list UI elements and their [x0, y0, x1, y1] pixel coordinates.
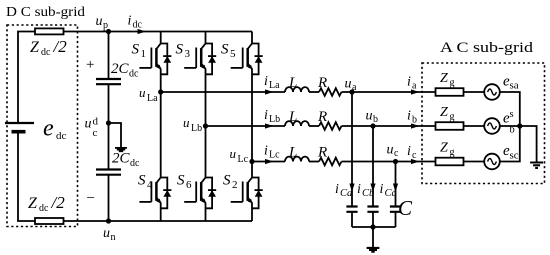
svg-text:4: 4 — [147, 179, 153, 191]
svg-text:Cb: Cb — [362, 188, 374, 199]
svg-text:R: R — [317, 109, 327, 125]
svg-text:Z: Z — [30, 39, 40, 56]
svg-text:dc: dc — [39, 203, 49, 214]
capacitor 2Cdc lower plates — [96, 170, 121, 175]
svg-text:L: L — [288, 145, 297, 161]
svg-text:g: g — [450, 147, 455, 158]
wire: capacitor bottom bus — [352, 226, 396, 228]
wire: resistor to AC box — [342, 161, 437, 163]
svg-text:c: c — [93, 127, 98, 139]
wire: battery top to rail — [18, 32, 35, 124]
wire: u_b down to capacitor Cb — [372, 126, 374, 207]
wire: capacitor Ca to bus — [351, 212, 353, 227]
transistor S4 (IGBT) — [139, 178, 161, 204]
svg-text:u: u — [96, 14, 103, 29]
svg-text:A C sub-grid: A C sub-grid — [440, 40, 534, 56]
wire: capacitor Cb to bus — [372, 212, 374, 227]
wire: u_p down to upper capacitor — [108, 32, 110, 80]
capacitor 2Cdc upper plates — [96, 79, 121, 84]
wire: S4 emitter to bottom rail — [160, 203, 162, 221]
transistor S3 (IGBT) — [184, 44, 206, 70]
svg-text:e: e — [43, 116, 54, 142]
svg-text:1: 1 — [141, 48, 147, 60]
svg-text:p: p — [103, 20, 108, 31]
current arrow i_Lb — [265, 123, 274, 128]
svg-text:i: i — [335, 182, 339, 197]
AC sub-grid dashed box — [422, 63, 545, 184]
node u_n — [106, 218, 111, 223]
svg-text:i: i — [264, 74, 268, 89]
node u_Lb — [203, 123, 208, 128]
wire: Zg to source (phase b) — [464, 125, 485, 127]
wire: resistor to AC box — [342, 125, 437, 127]
svg-text:u: u — [230, 146, 237, 161]
node u_b — [370, 123, 375, 128]
wire: u_La to inductor — [161, 91, 285, 93]
svg-text:La: La — [269, 80, 280, 91]
node u_Lc — [249, 159, 254, 164]
svg-text:b: b — [412, 115, 417, 126]
node u_La — [158, 89, 163, 94]
wire: leg B phase node down to S6 — [205, 126, 207, 178]
svg-text:dc: dc — [56, 130, 67, 142]
wire: leg A top stub — [160, 32, 162, 44]
svg-text:sc: sc — [510, 150, 519, 162]
current arrow i_Lc — [265, 159, 274, 164]
battery e_dc long plate — [5, 122, 34, 124]
svg-text:3: 3 — [185, 48, 191, 60]
svg-text:b: b — [373, 114, 378, 125]
svg-text:L: L — [288, 109, 297, 125]
inductor L (phase a) — [285, 87, 309, 92]
svg-text:Ca: Ca — [340, 188, 352, 199]
capacitor Cb plates — [367, 207, 378, 212]
AC source e_sa — [484, 84, 500, 100]
svg-text:Lc: Lc — [238, 154, 249, 165]
svg-text:dc: dc — [133, 20, 143, 31]
svg-text:i: i — [380, 182, 384, 197]
wire: S5 emitter to node u_Lc — [251, 69, 253, 162]
svg-text:u: u — [85, 117, 92, 132]
wire: S2 emitter to bottom rail — [251, 203, 253, 221]
transistor S2 (IGBT) — [231, 178, 253, 204]
svg-text:Z: Z — [440, 141, 448, 156]
svg-text:u: u — [387, 143, 394, 158]
svg-text:2C: 2C — [111, 61, 130, 77]
wire: leg B top stub — [205, 32, 207, 44]
svg-text:L: L — [288, 75, 297, 91]
wire: S1 emitter to node u_La — [160, 69, 162, 92]
resistor Zg (phase b) — [436, 122, 464, 130]
svg-text:i: i — [357, 182, 361, 197]
svg-text:S: S — [223, 173, 231, 189]
current arrow i_La — [265, 89, 274, 94]
capacitor Cc plates — [390, 207, 401, 212]
transistor S5 (IGBT) — [231, 44, 253, 70]
diode D4 (antiparallel) — [161, 178, 172, 209]
svg-text:u: u — [139, 85, 146, 100]
svg-text:5: 5 — [230, 48, 236, 60]
resistor Zdc/2 bottom box — [35, 218, 64, 224]
current arrow i_b — [411, 123, 420, 128]
svg-text:a: a — [412, 81, 417, 92]
node u_p — [106, 29, 111, 34]
svg-text:g: g — [450, 78, 455, 89]
resistor Zdc/2 top box — [35, 28, 64, 34]
svg-text:i: i — [128, 14, 132, 29]
svg-text:u: u — [345, 77, 352, 92]
svg-text:Z: Z — [440, 105, 448, 120]
svg-text:n: n — [111, 232, 116, 243]
diode D2 (antiparallel) — [252, 178, 263, 209]
diode D5 (antiparallel) — [252, 44, 263, 75]
wire: junction to AC ground — [520, 126, 537, 162]
diode D3 (antiparallel) — [206, 44, 217, 75]
wire: S6 emitter to bottom rail — [205, 203, 207, 221]
transistor S6 (IGBT) — [184, 178, 206, 204]
wire: battery bottom to bottom rail — [18, 132, 35, 221]
current arrow i_Cb — [370, 184, 375, 193]
wire: leg C top stub — [251, 32, 253, 44]
svg-text:i: i — [264, 108, 268, 123]
battery e_dc short plate — [12, 130, 26, 134]
ground (AC neutral) — [530, 163, 543, 169]
ground (capacitor bank) — [367, 248, 380, 252]
svg-text:S: S — [221, 42, 229, 58]
svg-text:R: R — [317, 145, 327, 161]
wire: u_c down to capacitor Cc — [395, 162, 397, 207]
svg-text:dc: dc — [130, 158, 140, 169]
wire: top rail — [64, 31, 253, 33]
wire — [309, 91, 319, 93]
svg-text:Lb: Lb — [191, 123, 202, 134]
wire: u_Lb to inductor — [206, 125, 286, 127]
current arrow i_Cc — [393, 184, 398, 193]
svg-text:−: − — [87, 191, 95, 207]
svg-text:La: La — [147, 93, 158, 104]
diode D6 (antiparallel) — [206, 178, 217, 209]
node u_dc midpoint — [106, 120, 111, 125]
svg-text:i: i — [407, 144, 411, 159]
wire: resistor to AC box — [342, 91, 437, 93]
wire: leg A phase node down to S4 — [160, 92, 162, 178]
svg-text:Lb: Lb — [269, 114, 280, 125]
node u_c — [393, 159, 398, 164]
node u_a — [349, 89, 354, 94]
svg-text:2C: 2C — [112, 151, 131, 167]
svg-text:D C sub-grid: D C sub-grid — [6, 5, 85, 20]
svg-text:/2: /2 — [51, 193, 66, 212]
resistor R (phase a) — [319, 88, 342, 96]
diode D1 (antiparallel) — [161, 44, 172, 75]
svg-text:dc: dc — [41, 47, 51, 58]
svg-text:c: c — [394, 148, 399, 159]
svg-text:6: 6 — [186, 179, 192, 191]
transistor S1 (IGBT) — [139, 44, 161, 70]
wire: u_Lc to inductor — [252, 161, 285, 163]
resistor R (phase c) — [319, 158, 342, 166]
wire — [309, 161, 319, 163]
svg-text:u: u — [183, 115, 190, 130]
svg-text:i: i — [407, 75, 411, 90]
wire: source b to junction — [500, 125, 520, 127]
svg-text:a: a — [352, 82, 357, 93]
svg-text:Lc: Lc — [269, 150, 280, 161]
svg-text:+: + — [86, 57, 94, 73]
ground (DC midpoint) — [115, 148, 127, 151]
svg-text:C: C — [398, 196, 413, 220]
svg-text:g: g — [450, 112, 455, 123]
svg-text:R: R — [317, 75, 327, 91]
wire: Zg to source (phase c) — [464, 161, 485, 163]
svg-text:Cc: Cc — [385, 188, 397, 199]
svg-text:Z: Z — [28, 195, 38, 212]
svg-text:u: u — [366, 109, 373, 124]
wire: u_a down to capacitor Ca — [351, 92, 353, 207]
svg-text:c: c — [412, 150, 417, 161]
wire: Zg to source (phase a) — [464, 91, 485, 93]
current arrow i_Ca — [349, 184, 354, 193]
current arrow i_c — [411, 159, 420, 164]
svg-text:s: s — [510, 109, 514, 120]
inductor L (phase c) — [285, 157, 309, 162]
svg-text:dc: dc — [129, 69, 139, 80]
wire: lower cap to u_n — [108, 175, 110, 221]
AC source e_sc — [484, 154, 500, 170]
current arrow i_dc — [138, 29, 147, 34]
wire: mid node to ground stub — [109, 123, 122, 147]
svg-text:sa: sa — [510, 80, 519, 92]
DC sub-grid dashed box — [7, 25, 78, 227]
svg-text:S: S — [177, 173, 185, 189]
wire: bottom rail — [64, 220, 253, 222]
wire: bus to ground — [372, 227, 374, 247]
inductor L (phase b) — [285, 121, 309, 126]
svg-text:u: u — [103, 226, 110, 241]
node capacitor bus midpoint — [370, 224, 375, 229]
svg-text:d: d — [93, 116, 99, 128]
wire: S3 emitter to node u_Lb — [205, 69, 207, 126]
node phase b junction — [517, 123, 522, 128]
wire: source a to right bus — [500, 92, 520, 126]
resistor R (phase b) — [319, 122, 342, 130]
svg-text:/2: /2 — [53, 37, 68, 56]
svg-text:2: 2 — [232, 179, 238, 191]
svg-text:i: i — [264, 144, 268, 159]
resistor Zg (phase a) — [436, 88, 464, 96]
wire: upper cap to lower cap — [108, 84, 110, 169]
wire: leg C phase node down to S2 — [251, 162, 253, 178]
svg-text:S: S — [138, 173, 146, 189]
svg-text:i: i — [407, 109, 411, 124]
resistor Zg (phase c) — [436, 158, 464, 166]
capacitor Ca plates — [346, 207, 357, 212]
wire: capacitor Cc to bus — [395, 212, 397, 227]
svg-text:S: S — [176, 42, 184, 58]
AC source e_sb — [484, 118, 500, 134]
svg-text:S: S — [132, 42, 140, 58]
wire — [309, 125, 319, 127]
svg-text:Z: Z — [440, 71, 448, 86]
wire: source c to right bus — [500, 126, 520, 162]
current arrow i_a — [411, 89, 420, 94]
